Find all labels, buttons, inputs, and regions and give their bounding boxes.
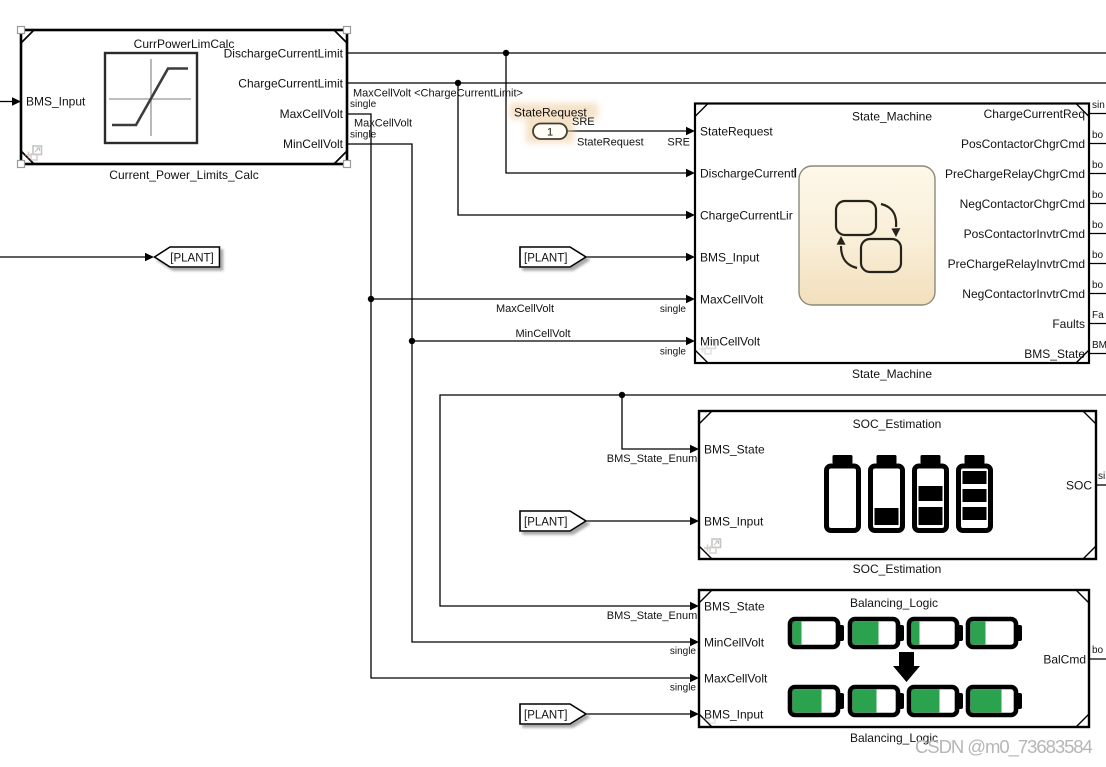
svg-text:single: single (660, 304, 687, 315)
svg-text:single: single (660, 347, 687, 358)
model badge SOC_Estimation (704, 539, 721, 553)
junction on W4 (409, 338, 415, 344)
model badge Balancing_Logic (703, 715, 715, 724)
stateflow chart icon (799, 166, 935, 305)
balancing battery row 1 cell 4 (968, 619, 1022, 647)
wire W6 into BMS_Input of Current_Power_Limits_Calc (0, 97, 21, 105)
selection handles of Current_Power_Limits_Calc (18, 27, 351, 168)
svg-text:BMS_State: BMS_State (1024, 347, 1085, 361)
svg-text:NegContactorChgrCmd: NegContactorChgrCmd (960, 197, 1085, 211)
svg-text:BM: BM (1092, 340, 1106, 351)
subsystem Current_Power_Limits_Calc (21, 30, 347, 164)
svg-text:StateRequest: StateRequest (577, 137, 644, 149)
State_Machine output stub wires (1089, 114, 1106, 354)
svg-text:BMS_State_Enum: BMS_State_Enum (607, 453, 698, 465)
svg-text:bo: bo (1092, 220, 1104, 231)
svg-text:MinCellVolt: MinCellVolt (515, 328, 570, 340)
wire W10 from PLANT tag 3 to Balancing_Logic BMS_Input (586, 710, 699, 718)
svg-text:Current_Power_Limits_Calc: Current_Power_Limits_Calc (109, 168, 258, 182)
svg-text:BMS_State: BMS_State (704, 443, 765, 457)
svg-text:MaxCellVolt <ChargeCurrentLimi: MaxCellVolt <ChargeCurrentLimit> (353, 88, 523, 100)
junction on W1 (503, 50, 509, 56)
SOC battery icon 3 (two bars) (915, 455, 947, 531)
svg-text:StateRequest: StateRequest (700, 125, 773, 139)
wire W7 into goto PLANT (0, 253, 154, 261)
from tag PLANT 2 (520, 511, 586, 531)
svg-text:PosContactorChgrCmd: PosContactorChgrCmd (961, 137, 1085, 151)
svg-text:ChargeCurrentLimit: ChargeCurrentLimit (238, 77, 343, 91)
svg-text:1: 1 (547, 127, 553, 139)
Balancing output stub wire (1089, 658, 1106, 660)
balancing battery row 1 cell 1 (790, 619, 844, 647)
svg-text:MaxCellVolt: MaxCellVolt (496, 303, 554, 315)
svg-text:Balancing_Logic: Balancing_Logic (850, 596, 938, 610)
inport 1 StateRequest (533, 124, 567, 140)
svg-text:MaxCellVolt: MaxCellVolt (704, 672, 768, 686)
wire W3a branch to State_Machine MaxCellVolt input (371, 295, 695, 303)
balancing battery row 1 cell 2 (850, 619, 904, 647)
svg-text:State_Machine: State_Machine (852, 367, 932, 381)
balancing arrow icon (893, 652, 920, 682)
svg-text:SRE: SRE (667, 137, 690, 149)
wire W4 MinCellVolt down the left side (347, 144, 699, 646)
wire W9 from PLANT tag 2 to SOC_Estimation BMS_Input (586, 517, 699, 525)
svg-text:BMS_State_Enum: BMS_State_Enum (607, 610, 698, 622)
svg-text:[PLANT]: [PLANT] (524, 517, 567, 529)
svg-text:bo: bo (1092, 190, 1104, 201)
svg-text:MaxCellVolt: MaxCellVolt (280, 107, 344, 121)
wire W5 StateRequest inport to State_Machine (567, 127, 695, 135)
svg-text:NegContactorInvtrCmd: NegContactorInvtrCmd (962, 287, 1085, 301)
svg-text:single: single (350, 99, 377, 110)
svg-text:SOC_Estimation: SOC_Estimation (853, 562, 942, 576)
svg-text:Faults: Faults (1052, 317, 1085, 331)
balancing battery row 2 cell 1 (790, 687, 844, 715)
model badge State_Machine (699, 340, 716, 354)
SOC battery icon 4 (three bars) (959, 455, 991, 531)
svg-text:single: single (670, 646, 697, 657)
SOC battery icon 2 (one bar) (871, 455, 903, 531)
wire W11a branch to SOC_Estimation BMS_State (622, 395, 699, 453)
svg-text:bo: bo (1092, 250, 1104, 261)
balancing battery row 2 cell 2 (850, 687, 904, 715)
svg-text:ChargeCurrentReq: ChargeCurrentReq (984, 107, 1085, 121)
svg-text:PosContactorInvtrCmd: PosContactorInvtrCmd (964, 227, 1085, 241)
balancing battery row 2 cell 3 (909, 687, 963, 715)
svg-text:ChargeCurrentLir: ChargeCurrentLir (700, 209, 793, 223)
svg-text:DischargeCurrentLimit: DischargeCurrentLimit (224, 47, 344, 61)
svg-text:BMS_Input: BMS_Input (700, 251, 760, 265)
svg-text:PreChargeRelayChgrCmd: PreChargeRelayChgrCmd (945, 167, 1085, 181)
svg-text:SRE: SRE (572, 116, 595, 128)
SOC battery icon 1 (empty) (827, 455, 859, 531)
wire W2 ChargeCurrentLimit from Current_Power_Limits_Calc to right edge (347, 82, 1106, 84)
wire W3 MaxCellVolt down the left side (347, 114, 699, 682)
svg-text:Fa: Fa (1092, 310, 1104, 321)
svg-text:State_Machine: State_Machine (852, 110, 932, 124)
svg-text:sin: sin (1092, 100, 1105, 111)
junction on W2 (455, 80, 461, 86)
from tag PLANT 1 (520, 247, 586, 267)
svg-text:[PLANT]: [PLANT] (170, 253, 213, 265)
State_Machine output port labels (945, 107, 1085, 361)
truncated signal type labels at right edge (1092, 100, 1106, 351)
svg-text:BMS_Input: BMS_Input (704, 708, 764, 722)
from tag PLANT 3 (520, 704, 586, 724)
wire W4a branch to State_Machine MinCellVolt input (412, 337, 695, 345)
wire W11 BMS_State feedback from right edge to Balancing_Logic BMS_State (440, 395, 1106, 610)
balancing battery row 2 cell 4 (968, 687, 1022, 715)
balancing battery row 1 cell 3 (909, 619, 963, 647)
svg-text:bo: bo (1092, 130, 1104, 141)
model block State_Machine (695, 104, 1089, 364)
SOC output stub wire (1096, 484, 1106, 486)
svg-text:CurrPowerLimCalc: CurrPowerLimCalc (134, 37, 235, 51)
junction on W11 (619, 392, 625, 398)
model block SOC_Estimation (699, 411, 1096, 559)
svg-text:DischargeCurrent: DischargeCurrent (700, 167, 795, 181)
wire W1a branch down to State_Machine DischargeCurrent input (506, 53, 695, 177)
svg-text:single: single (670, 683, 697, 694)
wire W8 from PLANT tag 1 to State_Machine BMS_Input (586, 253, 695, 261)
svg-text:BMS_State: BMS_State (704, 600, 765, 614)
svg-text:PreChargeRelayInvtrCmd: PreChargeRelayInvtrCmd (948, 257, 1085, 271)
goto tag PLANT (155, 247, 220, 267)
svg-text:MinCellVolt: MinCellVolt (704, 636, 765, 650)
svg-text:bo: bo (1092, 645, 1104, 656)
svg-text:BMS_Input: BMS_Input (704, 515, 764, 529)
svg-text:MinCellVolt: MinCellVolt (283, 137, 344, 151)
State_Machine input port labels (700, 125, 796, 349)
svg-text:single: single (350, 130, 377, 141)
svg-text:MaxCellVolt: MaxCellVolt (700, 293, 764, 307)
junction on W3 (368, 296, 374, 302)
svg-text:BalCmd: BalCmd (1043, 653, 1086, 667)
saturation icon inside Current_Power_Limits_Calc (105, 53, 197, 143)
svg-text:SOC_Estimation: SOC_Estimation (853, 417, 942, 431)
svg-text:[PLANT]: [PLANT] (524, 253, 567, 265)
wire W2a branch down to State_Machine ChargeCurrent input (458, 83, 695, 219)
svg-text:bo: bo (1092, 280, 1104, 291)
model block Balancing_Logic (699, 590, 1089, 727)
svg-text:MaxCellVolt: MaxCellVolt (354, 118, 412, 130)
svg-text:si: si (1098, 471, 1105, 482)
highlight glow behind StateRequest inport (510, 103, 598, 143)
svg-text:CSDN @m0_73683584: CSDN @m0_73683584 (915, 736, 1093, 758)
wire W1 DischargeCurrentLimit from Current_Power_Limits_Calc to right edge (347, 52, 1106, 54)
model badge Current_Power_Limits_Calc (25, 146, 42, 160)
svg-text:bo: bo (1092, 160, 1104, 171)
svg-text:MinCellVolt: MinCellVolt (700, 335, 761, 349)
svg-text:BMS_Input: BMS_Input (26, 95, 86, 109)
svg-text:SOC: SOC (1066, 479, 1092, 493)
svg-text:[PLANT]: [PLANT] (524, 710, 567, 722)
